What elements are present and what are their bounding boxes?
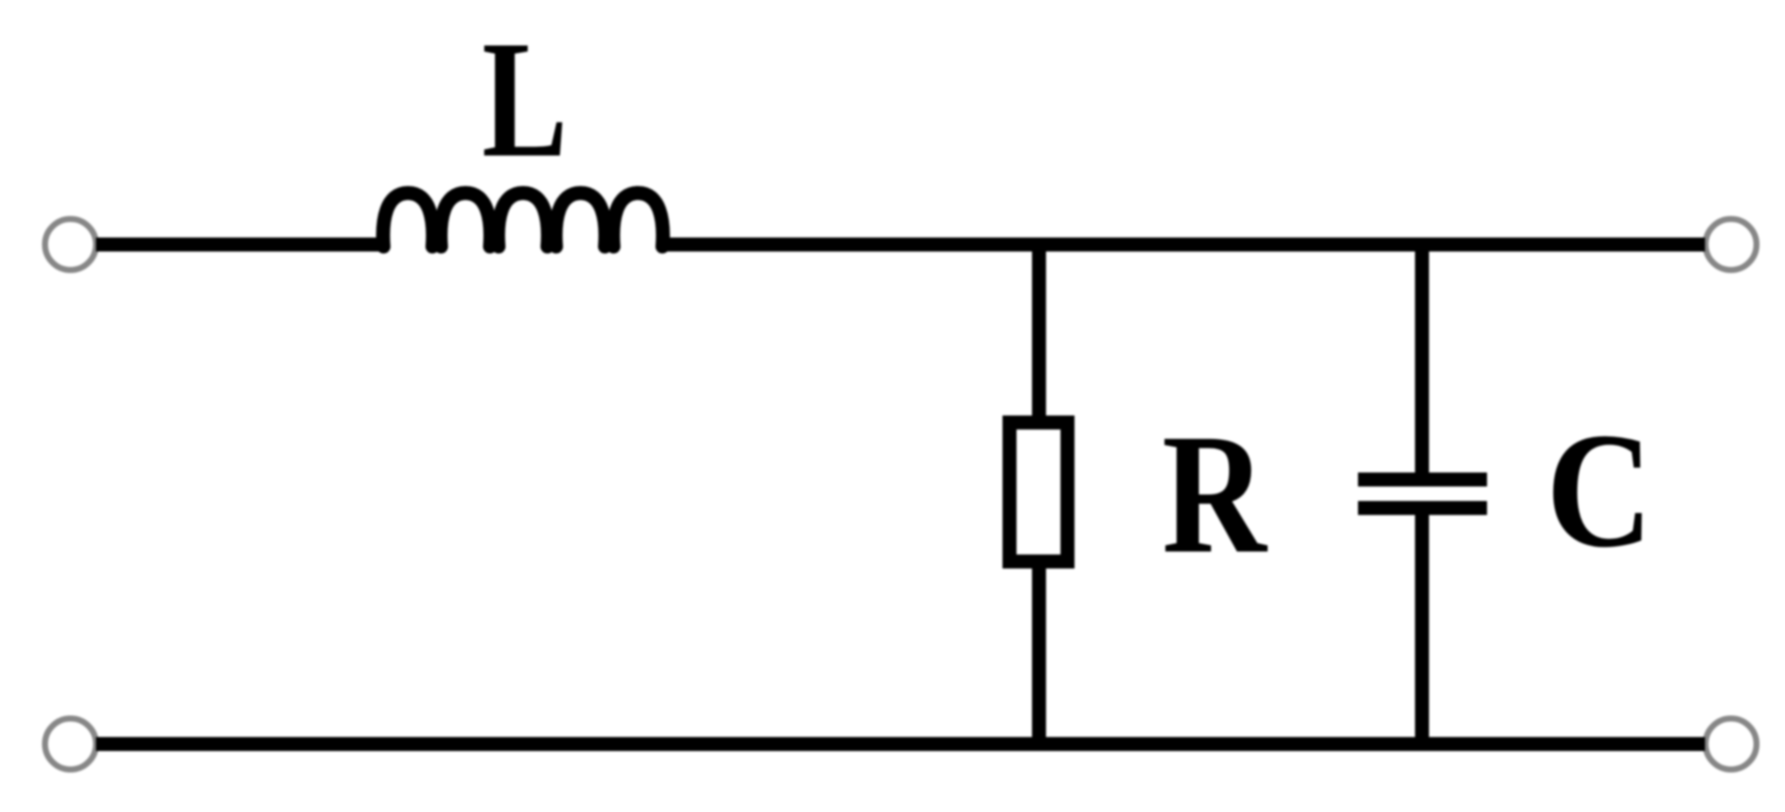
terminal bottom-left <box>45 719 96 770</box>
terminal bottom-right <box>1706 719 1757 770</box>
svg-text:R: R <box>1162 399 1268 590</box>
wire resistor branch (vertical) <box>1032 245 1046 745</box>
capacitor C bottom plate <box>1358 501 1487 515</box>
svg-text:L: L <box>482 7 568 192</box>
capacitor C top plate <box>1358 473 1487 487</box>
resistor R (body) <box>1010 423 1068 562</box>
terminal top-left <box>45 219 96 270</box>
wire capacitor branch upper <box>1415 245 1429 480</box>
wire bottom <box>96 737 1705 751</box>
wire capacitor branch lower <box>1415 508 1429 744</box>
inductor L (coil) <box>383 193 663 247</box>
wire top-left segment <box>96 238 387 252</box>
wire top-right segment <box>660 238 1705 252</box>
terminal top-right <box>1706 219 1757 270</box>
svg-text:C: C <box>1546 398 1653 581</box>
